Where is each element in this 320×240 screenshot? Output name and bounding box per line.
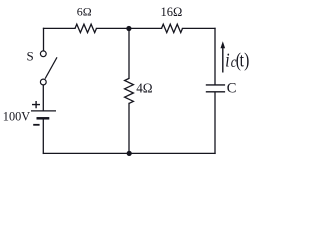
svg-text:): ) (244, 49, 249, 71)
battery minus sign (33, 124, 39, 126)
wire bottom rail (44, 152, 216, 154)
wire left rail upper (corner to switch) (43, 28, 45, 50)
svg-text:16Ω: 16Ω (161, 5, 183, 19)
capacitor C top plate (206, 84, 225, 86)
switch S blade (45, 57, 57, 78)
resistor 6ohm (75, 24, 96, 32)
resistor 16ohm (162, 24, 183, 32)
svg-text:100V: 100V (3, 110, 30, 124)
wire top rail middle segment (97, 27, 162, 29)
wire top rail right segment (183, 27, 216, 29)
wire right rail lower (214, 92, 216, 153)
battery positive plate (long) (31, 110, 56, 112)
node junction dot bottom (127, 151, 132, 156)
svg-text:6Ω: 6Ω (77, 5, 92, 19)
label ic(t) (225, 49, 249, 72)
svg-text:C: C (227, 80, 237, 96)
battery plus sign (32, 101, 40, 108)
resistor 4ohm (125, 78, 134, 103)
battery negative plate (short thick) (37, 117, 50, 120)
wire battery to bottom rail (42, 119, 44, 153)
wire middle branch upper (128, 28, 130, 78)
wire right rail upper (214, 28, 216, 84)
switch S top terminal circle (40, 51, 46, 57)
capacitor C bottom plate (206, 91, 225, 93)
switch S bottom terminal circle (40, 79, 46, 85)
node junction dot top (126, 26, 131, 31)
svg-text:i: i (225, 49, 229, 71)
wire top rail left segment (44, 27, 76, 29)
wire switch lower to battery (42, 85, 44, 110)
svg-text:S: S (27, 49, 34, 64)
svg-text:4Ω: 4Ω (136, 81, 153, 96)
wire middle branch lower (128, 103, 130, 153)
current arrow ic(t) (221, 41, 226, 72)
